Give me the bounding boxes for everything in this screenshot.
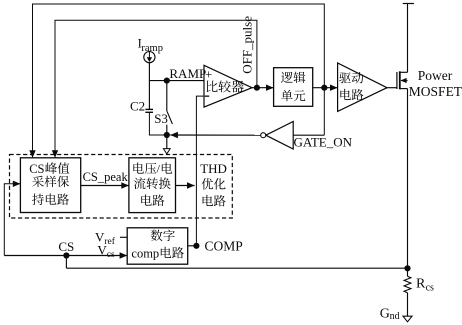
wire: GATE_ON to inverter input (293, 134, 324, 136)
svg-text:THD: THD (200, 161, 227, 176)
svg-text:cs: cs (107, 250, 115, 260)
svg-text:RAMP: RAMP (169, 66, 206, 81)
node: gate drive net (321, 85, 327, 91)
node: S3 bottom / C2 node (164, 132, 170, 138)
svg-text:MOSFET: MOSFET (409, 84, 462, 99)
block: logic unit (274, 68, 313, 107)
wire: C2 bottom to S3 node (149, 113, 166, 135)
node: comparator output (254, 85, 260, 91)
wire: CS to sample-hold input (4, 181, 20, 256)
capacitor C2 (145, 109, 153, 113)
wire: CS node down to sense line (65, 256, 67, 269)
wire: CS sense line (bottom) (66, 267, 407, 269)
svg-text:COMP: COMP (205, 238, 243, 253)
wire: CS to digital comp (Vcs) (4, 252, 127, 258)
svg-text:CS: CS (58, 239, 74, 254)
block: THD optimisation circuit (200, 161, 227, 206)
wire: RAMP to comparator + input (149, 80, 204, 82)
svg-text:CS_peak: CS_peak (83, 170, 129, 184)
transistor Power MOSFET (397, 71, 408, 89)
block: digital comp circuit (127, 228, 188, 264)
op-amp comparator U1 (204, 65, 252, 107)
block: CS peak sample-hold circuit (20, 158, 80, 213)
wire: drive output to MOSFET gate (387, 87, 397, 89)
svg-text:nd: nd (390, 311, 400, 322)
block: voltage/current conversion circuit (129, 158, 176, 213)
ground Gnd (403, 316, 412, 322)
svg-text:comp: comp (131, 246, 159, 260)
svg-text:cs: cs (426, 282, 434, 293)
wire: node to dashed block (sample trigger) (163, 135, 170, 154)
resistor Rcs (404, 268, 411, 316)
svg-text:GATE_ON: GATE_ON (294, 135, 353, 150)
svg-text:S3: S3 (154, 111, 168, 126)
wire: source down to Rcs node (407, 89, 409, 269)
wire: GATE_ON feedback (top outer) (29, 4, 324, 158)
wire: inverter output to S3 control node (170, 132, 260, 138)
wire: digital comp output COMP (188, 245, 197, 247)
buffer: drive circuit (338, 63, 387, 111)
wire: Iramp branch down to C2 (148, 62, 150, 109)
svg-text:G: G (380, 307, 390, 322)
node: RAMP / S3 top (164, 78, 170, 84)
wire: CS_peak (81, 182, 129, 188)
svg-text:OFF_pulse: OFF_pulse (239, 16, 254, 74)
inverter (GATE_ON) (261, 122, 294, 150)
wire: Vref input (120, 236, 127, 238)
svg-text:R: R (416, 276, 426, 291)
wire: drain to top terminal (403, 4, 414, 73)
node: CS (63, 252, 69, 258)
current source Iramp (144, 52, 155, 63)
svg-text:C2: C2 (130, 98, 145, 113)
svg-text:ramp: ramp (141, 43, 163, 54)
node: Rcs top (404, 265, 410, 271)
svg-text:CS: CS (29, 162, 44, 176)
dashed box (sample-hold / THD optimisation group) (10, 155, 233, 219)
wire: logic unit output (313, 85, 338, 91)
wire: OFF_pulse (top inner) (52, 20, 257, 158)
wire: conversion to THD block (176, 182, 195, 188)
switch S3 (167, 81, 173, 135)
wire: comparator output to logic unit (252, 85, 274, 91)
svg-text:Power: Power (418, 68, 453, 83)
node: COMP (193, 243, 199, 249)
wire: COMP to comparator - input (196, 96, 204, 246)
